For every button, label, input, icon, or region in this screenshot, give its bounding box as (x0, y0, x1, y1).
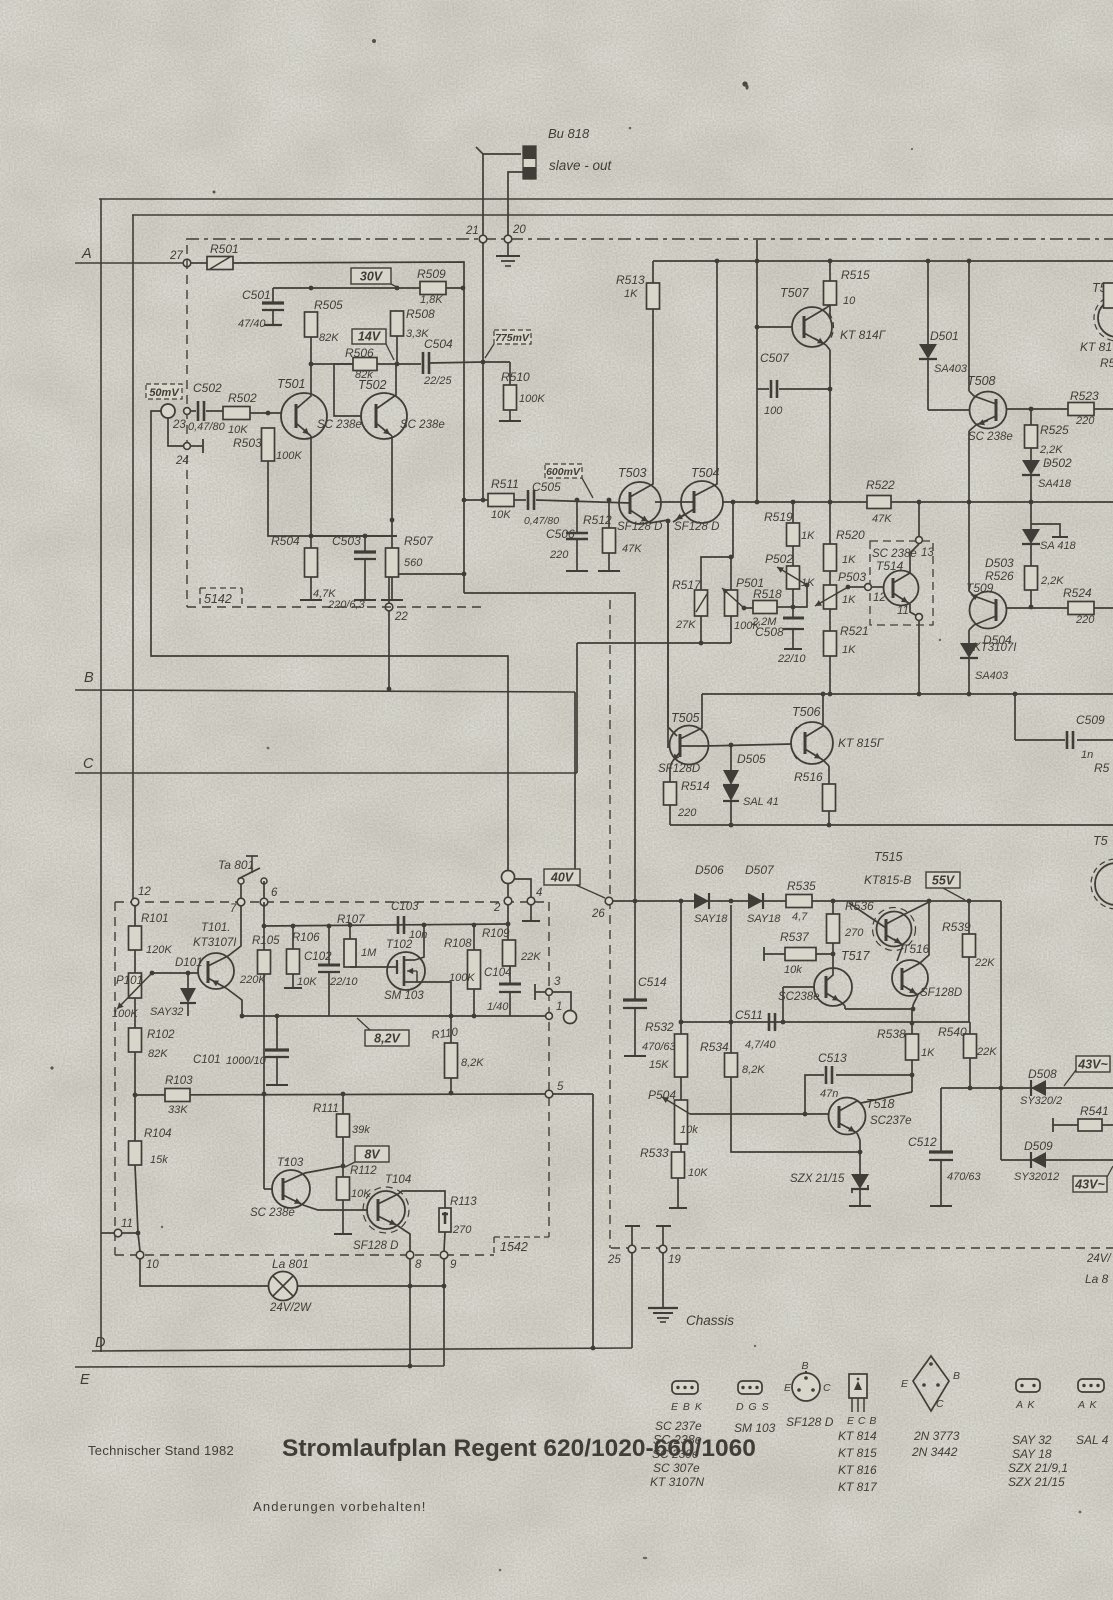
junction 757 rail (755, 259, 760, 264)
svg-text:100K: 100K (449, 972, 475, 984)
label 40V box (544, 869, 580, 885)
wire D501 to T508 base (928, 409, 970, 411)
resistor R534 (730, 905, 732, 1053)
label 50mV box (146, 384, 182, 399)
diode D509 line (1001, 1159, 1113, 1161)
resistor R521 (829, 609, 831, 631)
node 7 (237, 898, 245, 906)
svg-text:T101.: T101. (201, 922, 230, 934)
wire T507 base (757, 326, 792, 328)
transistor T102 drain (415, 925, 424, 960)
svg-text:SF128 D: SF128 D (353, 1240, 398, 1252)
svg-text:21: 21 (465, 225, 479, 237)
resistor R526 (1030, 544, 1032, 566)
wire T502 base (334, 364, 361, 416)
svg-text:T506: T506 (792, 705, 821, 719)
svg-text:SC 238e: SC 238e (400, 419, 445, 431)
wire P501 bottom (730, 616, 732, 643)
svg-text:47/40: 47/40 (238, 318, 266, 330)
wire node3 link (553, 992, 571, 1012)
svg-text:SM 103: SM 103 (384, 990, 424, 1002)
transistor T509 base bar (995, 599, 998, 621)
wire R534 bottom to emitter (731, 1077, 860, 1152)
signal line T501-T502 (311, 363, 353, 365)
wire node12 to base (872, 586, 884, 588)
transistor T506 collector (805, 694, 823, 737)
svg-text:C511: C511 (735, 1008, 763, 1022)
svg-text:SC237e: SC237e (870, 1115, 912, 1127)
resistor R536 (832, 901, 834, 914)
junction R509 right (461, 286, 466, 291)
svg-text:470/63: 470/63 (642, 1041, 677, 1053)
svg-text:4,7: 4,7 (792, 911, 808, 923)
transistor T508 emitter (976, 416, 996, 425)
svg-text:SF128D: SF128D (658, 763, 700, 775)
wire R502 to base (250, 412, 281, 414)
svg-text:R518: R518 (753, 587, 782, 601)
wire node11 left (101, 1232, 114, 1234)
wire C509 (1014, 694, 1016, 740)
junction T501 collector line (309, 362, 314, 367)
svg-text:1K: 1K (624, 288, 638, 300)
svg-text:D504: D504 (983, 633, 1012, 647)
svg-text:1K: 1K (921, 1047, 935, 1059)
wire emitter T502 to C503 rail (311, 535, 397, 537)
junction R503 top (266, 411, 271, 416)
transistor T517 emitter (826, 993, 841, 1002)
wire T517 base (783, 986, 814, 988)
junction R525 top (1029, 407, 1034, 412)
resistor R511 (488, 494, 514, 507)
svg-text:50mV: 50mV (149, 387, 180, 399)
diode D508 line (941, 1087, 1113, 1089)
resistor R510 (504, 385, 517, 410)
svg-text:R535: R535 (787, 879, 816, 893)
svg-text:22/25: 22/25 (423, 375, 452, 387)
power block left dashed boundary (609, 600, 611, 1248)
resistor R504 (310, 536, 312, 548)
svg-text:KT 815: KT 815 (838, 1446, 877, 1460)
svg-text:5: 5 (557, 1081, 564, 1093)
label 8.2V box (365, 1030, 409, 1046)
wire T502 emitter junction (390, 518, 395, 523)
inner frame left vertical to node 12 (132, 215, 134, 902)
svg-text:SA403: SA403 (934, 363, 968, 375)
resistor R113 (439, 1208, 451, 1232)
resistor R509 (420, 282, 446, 295)
svg-text:SF128D: SF128D (920, 987, 962, 999)
speck marks (372, 39, 376, 43)
transistor T104 emitter (378, 1216, 398, 1226)
30V rail (273, 287, 463, 289)
node 21 (479, 235, 487, 243)
junction 55V rail (967, 899, 972, 904)
svg-text:SAY32: SAY32 (150, 1006, 183, 1018)
P504 wiper (662, 1097, 690, 1114)
junction D504 rail (967, 692, 972, 697)
junction common emitters (666, 519, 671, 524)
block 5142 bottom dashed boundary (187, 606, 483, 608)
svg-text:SC 237e: SC 237e (655, 1419, 702, 1433)
wire R113 node9 (444, 1232, 445, 1251)
transistor T515 collector (886, 902, 929, 924)
svg-text:43V~: 43V~ (1077, 1058, 1108, 1072)
capacitor C503 (364, 536, 366, 551)
node 24 (184, 443, 191, 450)
svg-text:C505: C505 (532, 480, 561, 494)
transistor T518 circle (829, 1098, 866, 1135)
wire node22 to bus B (388, 611, 390, 689)
junction R538 mid (910, 1021, 915, 1026)
svg-text:R513: R513 (616, 273, 645, 287)
junction node11 (136, 1231, 141, 1236)
junction 757 base (755, 325, 760, 330)
diode D504 (960, 643, 978, 658)
svg-text:D: D (95, 1335, 105, 1351)
resistor R519 (787, 523, 800, 546)
wire to R511 (464, 499, 488, 501)
svg-text:R502: R502 (228, 391, 257, 405)
svg-text:14V: 14V (358, 330, 382, 344)
svg-text:9: 9 (450, 1259, 457, 1271)
svg-text:8,2V: 8,2V (374, 1032, 401, 1046)
svg-text:D508: D508 (1028, 1067, 1057, 1081)
resistor R523 (1068, 403, 1094, 416)
svg-text:10K: 10K (351, 1188, 371, 1200)
svg-text:0,47/80: 0,47/80 (188, 421, 226, 433)
capacitor C513 (805, 1075, 824, 1114)
bus E line (75, 1366, 444, 1367)
transistor T517 base bar (825, 976, 828, 998)
transistor T514 circle (884, 571, 919, 606)
capacitor C102 (328, 926, 330, 964)
resistor R528 partial (1104, 283, 1113, 308)
wire R522 right (891, 501, 1113, 503)
wire 23 to C502 (190, 410, 196, 412)
node 2 (504, 897, 512, 905)
transistor T504 circle (681, 481, 723, 523)
svg-text:R5: R5 (1094, 761, 1110, 775)
svg-text:2N 3773: 2N 3773 (913, 1429, 960, 1443)
svg-text:R540: R540 (938, 1025, 967, 1039)
svg-text:T5: T5 (1093, 834, 1108, 848)
wire R517 bottom (700, 616, 702, 643)
svg-text:220/6,3: 220/6,3 (327, 599, 366, 611)
wire terminal to node4 (515, 879, 531, 898)
transistor T103 collector (283, 1166, 343, 1183)
junction emitter T501 (309, 534, 314, 539)
svg-text:R512: R512 (583, 513, 612, 527)
diode D503 (1022, 529, 1040, 544)
svg-text:E: E (784, 1382, 792, 1394)
svg-text:SY32012: SY32012 (1014, 1171, 1059, 1183)
node 19 (659, 1245, 667, 1253)
node 25 bar (625, 1225, 640, 1227)
transistor T505 base wire (667, 521, 669, 727)
transistor T507 emitter (804, 333, 826, 345)
svg-text:T102: T102 (386, 939, 413, 951)
node 11 terminal (916, 614, 923, 621)
svg-text:SAY 18: SAY 18 (1012, 1447, 1052, 1461)
capacitor C504 (422, 352, 425, 374)
transistor T516 circle (892, 960, 928, 996)
svg-text:8,2K: 8,2K (742, 1064, 765, 1076)
wire P101 R102 (134, 998, 136, 1028)
svg-text:30V: 30V (360, 270, 384, 284)
junction subrail left (262, 924, 267, 929)
node 26 (605, 897, 613, 905)
junction R534 top (729, 1020, 734, 1025)
bus A line (75, 262, 186, 264)
wire R538 to T518 collector (911, 1060, 913, 1092)
svg-text:R521: R521 (840, 624, 869, 638)
svg-text:E: E (80, 1372, 90, 1388)
transistor T503 collector (630, 309, 653, 497)
wire R501 to corner (233, 262, 464, 593)
transistor T503 base bar (629, 492, 632, 514)
wire R540 bottom (969, 1058, 971, 1088)
svg-text:R109: R109 (482, 928, 510, 940)
junction node2 subrail (506, 922, 511, 927)
svg-text:600mV: 600mV (546, 466, 581, 478)
svg-text:47K: 47K (622, 543, 642, 555)
wire A to R501 (191, 262, 207, 264)
legend package TO39 (792, 1373, 820, 1401)
junction C514 rail (633, 899, 638, 904)
svg-text:E: E (901, 1378, 909, 1390)
wire R102 R104 (134, 1095, 136, 1141)
junction T508 collector rail (967, 259, 972, 264)
wire R539 bottom (968, 957, 970, 1022)
transistor T103 emitter (283, 1195, 303, 1205)
input socket 23 (161, 404, 175, 418)
wire R524 right (1094, 607, 1113, 609)
node 27 (183, 259, 191, 267)
capacitor C509 (1066, 731, 1069, 749)
svg-text:T509: T509 (966, 581, 994, 595)
transistor T507 circle (792, 307, 832, 347)
svg-text:1: 1 (556, 1001, 562, 1013)
transistor T508 circle (970, 392, 1007, 429)
wire T509 base right (1006, 607, 1068, 609)
resistor R513 (647, 283, 660, 309)
transistor T506 emitter (805, 749, 823, 760)
svg-text:15k: 15k (150, 1154, 168, 1166)
junction D101 tap (186, 971, 191, 976)
diode D101 (187, 973, 189, 988)
svg-text:T507: T507 (780, 286, 810, 300)
lamp La801 (269, 1272, 298, 1301)
svg-text:R101: R101 (141, 913, 169, 925)
transistor T503 circle (619, 482, 661, 524)
junction 757 main (755, 500, 760, 505)
wire R519 (792, 502, 794, 523)
resistor R109 (507, 905, 509, 940)
svg-text:C102: C102 (304, 951, 332, 963)
transistor T511 arc (1095, 863, 1113, 905)
resistor R101 (134, 906, 136, 926)
svg-text:KT 815Γ: KT 815Γ (838, 736, 885, 750)
svg-text:T515: T515 (874, 850, 903, 864)
legend package DGS (738, 1381, 762, 1394)
svg-text:55V: 55V (932, 874, 956, 888)
svg-text:220: 220 (1075, 614, 1095, 626)
transistor T514 emitter (893, 593, 910, 604)
wire R518 to node (777, 606, 793, 608)
svg-text:R539: R539 (942, 920, 971, 934)
transistor T506 circle (791, 722, 833, 764)
label 43V box 1 (1064, 1070, 1076, 1086)
svg-text:KT 816: KT 816 (838, 1463, 877, 1477)
svg-text:120K: 120K (146, 944, 172, 956)
resistor R502 (223, 407, 250, 420)
svg-text:4: 4 (536, 887, 542, 899)
svg-text:T504: T504 (691, 466, 720, 480)
capacitor C508 (792, 607, 794, 617)
legend package diode1 (1016, 1379, 1040, 1392)
transistor T517 circle (814, 968, 852, 1006)
transistor T507 collector (804, 305, 830, 321)
svg-text:R105: R105 (252, 935, 280, 947)
svg-text:C509: C509 (1076, 713, 1105, 727)
svg-text:La 8: La 8 (1085, 1272, 1109, 1286)
svg-text:SF128 D: SF128 D (786, 1415, 834, 1429)
svg-text:SF128 D: SF128 D (674, 521, 719, 533)
svg-text:R104: R104 (144, 1128, 172, 1140)
svg-text:R514: R514 (681, 779, 710, 793)
legend package EBK (672, 1381, 698, 1394)
svg-text:220: 220 (1075, 415, 1095, 427)
wire node5 to D riser (553, 1093, 593, 1095)
bus D line (92, 1348, 632, 1351)
diode D507 (748, 893, 763, 909)
svg-text:T518: T518 (866, 1097, 895, 1111)
potentiometer P502 (792, 546, 794, 566)
wire R511 C505 (514, 499, 526, 501)
svg-text:27K: 27K (675, 619, 696, 631)
svg-text:A: A (81, 246, 92, 262)
svg-text:5142: 5142 (204, 592, 232, 606)
wire emitters down to T505 (667, 521, 669, 748)
diode D503 tap (1030, 502, 1032, 529)
capacitor C506 (576, 500, 578, 532)
svg-text:SAL 4: SAL 4 (1076, 1433, 1109, 1447)
svg-text:C103: C103 (391, 901, 419, 913)
svg-text:270: 270 (452, 1224, 472, 1236)
svg-text:1542: 1542 (500, 1240, 528, 1254)
node 19 bar (656, 1225, 671, 1227)
svg-text:1K: 1K (801, 530, 815, 542)
node 8 (406, 1251, 414, 1259)
junction R532 mid (679, 1020, 684, 1025)
svg-text:47K: 47K (872, 513, 892, 525)
wire node25 down (631, 1253, 633, 1348)
wire R105 to T103 base (263, 1094, 265, 1189)
transistor T502 circle (361, 393, 407, 439)
main line junction x733 (731, 500, 736, 505)
capacitor C104 (509, 966, 511, 983)
svg-text:D503: D503 (985, 556, 1014, 570)
wire R105 down (263, 974, 265, 1094)
svg-text:24: 24 (175, 455, 189, 467)
transistor T104 base bar (377, 1199, 380, 1221)
wire C riser (576, 643, 578, 773)
transistor T516 base bar (901, 968, 904, 990)
transistor T505 circle (670, 726, 709, 765)
transistor T101 emitter (208, 978, 226, 988)
terminal circle above node 2 (502, 871, 515, 884)
resistor R506 (353, 358, 377, 371)
svg-text:1K: 1K (842, 644, 856, 656)
wire P504 wiper line (690, 1113, 829, 1115)
svg-text:R511: R511 (491, 477, 519, 491)
svg-text:T505: T505 (671, 711, 700, 725)
resistor R518 (753, 601, 777, 614)
potentiometer P503 (829, 571, 831, 585)
svg-text:SZX 21/9,1: SZX 21/9,1 (1008, 1461, 1068, 1475)
svg-text:R507: R507 (404, 534, 434, 548)
svg-text:E B K: E B K (671, 1401, 703, 1413)
resistor R508 (391, 311, 404, 336)
wire jack sleeve to node20 (508, 172, 523, 235)
resistor R112 (337, 1177, 350, 1200)
jack Bu818 (523, 146, 536, 179)
wire R517 bracket (701, 502, 733, 590)
resistor R514 (669, 768, 671, 782)
block 5142 label box (200, 587, 242, 589)
svg-text:T501: T501 (277, 377, 306, 391)
svg-text:C504: C504 (424, 337, 453, 351)
svg-text:10K: 10K (228, 424, 248, 436)
wire terminal to node2 (507, 884, 509, 898)
resistor R516 (828, 766, 830, 784)
svg-text:T103: T103 (277, 1157, 304, 1169)
wire D riser (592, 1094, 594, 1348)
potentiometer P101 (129, 973, 142, 998)
legend package TO126 (849, 1374, 867, 1398)
diode D501 (927, 261, 929, 344)
junction R515 rail (828, 259, 833, 264)
svg-text:Stromlaufplan Regent 620/1020-: Stromlaufplan Regent 620/1020-660/1060 (282, 1435, 756, 1462)
wire corner to node 22 (389, 574, 464, 603)
wire R532 (680, 901, 682, 1034)
svg-text:P502: P502 (765, 552, 793, 566)
node 23 (184, 408, 191, 415)
capacitor C507 (757, 388, 769, 390)
node 4 (527, 897, 535, 905)
resistor R501 (207, 257, 233, 270)
wire R503 down (268, 461, 397, 536)
junction R110 top (449, 1014, 454, 1019)
wire node8 down (409, 1259, 411, 1366)
svg-text:R519: R519 (764, 510, 793, 524)
svg-text:8,2K: 8,2K (461, 1057, 484, 1069)
svg-text:C: C (936, 1398, 944, 1410)
junction base tap (150, 971, 155, 976)
svg-text:R111: R111 (313, 1103, 339, 1115)
junction R103 (133, 1093, 138, 1098)
label 14V box (352, 329, 386, 344)
svg-text:47n: 47n (820, 1088, 838, 1100)
block 1542 bottom dashed (115, 1254, 494, 1256)
transistor T505 base bar (679, 734, 682, 757)
transistor T102 fet (387, 966, 397, 968)
wire R506 to R508 (377, 363, 397, 365)
transistor T516 collector (902, 901, 929, 973)
svg-text:10: 10 (843, 295, 856, 307)
svg-text:43V~: 43V~ (1074, 1178, 1105, 1192)
P501 wiper (722, 588, 744, 608)
